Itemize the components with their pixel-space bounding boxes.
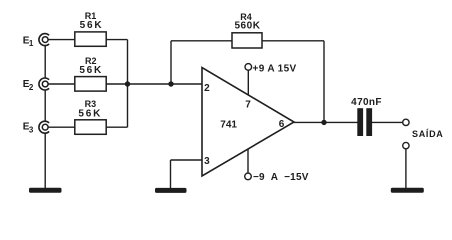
wire R3 to bus (106, 126, 127, 128)
wire output terminal to ground (405, 149, 407, 188)
terminal SAIDA signal (403, 119, 409, 125)
junction bus/main (125, 81, 130, 86)
ground (pin 3) (155, 188, 187, 193)
wire E3 to R3 (48, 126, 75, 128)
junction feedback/output (321, 120, 326, 125)
ground (output) (391, 188, 424, 193)
wire input chain vertical E2-E3 (44, 90, 46, 121)
wire E1 to R1 (48, 39, 75, 41)
wire R1 to bus (106, 39, 127, 41)
wire feedback left vertical (170, 41, 172, 84)
wire op-amp output (294, 121, 358, 123)
junction feedback/main (168, 81, 173, 86)
terminal E2 (39, 78, 49, 90)
svg-text:1: 1 (29, 39, 34, 48)
svg-text:56K: 56K (78, 108, 102, 119)
svg-text:−9 A −15V: −9 A −15V (253, 172, 309, 183)
terminal V- (245, 173, 252, 180)
svg-text:3: 3 (204, 156, 210, 167)
wire input chain vertical E1-E2 (44, 46, 46, 78)
wire feedback right vertical (323, 41, 325, 123)
terminal V+ (245, 64, 252, 71)
wire pin 3 down to ground (170, 160, 172, 188)
svg-text:3: 3 (29, 125, 34, 134)
svg-text:741: 741 (220, 119, 237, 130)
svg-text:2: 2 (204, 83, 210, 94)
wire pin 7 to V+ terminal (247, 70, 249, 95)
svg-text:+9 A 15V: +9 A 15V (253, 63, 297, 74)
svg-text:560K: 560K (234, 20, 260, 31)
op-amp U1 741 (202, 68, 294, 177)
resistor R2 (75, 77, 106, 92)
svg-text:7: 7 (245, 99, 251, 110)
wire bus vertical (127, 40, 129, 128)
wire feedback top right (262, 40, 324, 42)
wire E2 to R2 (48, 83, 75, 85)
svg-text:R3: R3 (85, 99, 97, 109)
wire E3 down to ground (44, 133, 46, 188)
wire op-amp pin 3 horizontal (171, 159, 203, 161)
terminal E3 (39, 121, 49, 133)
wire pin 4 to V- terminal (247, 149, 249, 173)
wire R2 to op-amp pin 2 (106, 83, 202, 85)
resistor R1 (75, 32, 106, 46)
svg-text:2: 2 (29, 83, 34, 92)
resistor R3 (75, 120, 106, 135)
ground (input) (29, 188, 62, 193)
terminal E1 (39, 34, 49, 46)
svg-text:470nF: 470nF (351, 97, 382, 108)
terminal SAIDA ground (403, 142, 409, 148)
svg-text:56K: 56K (79, 65, 103, 76)
svg-text:56K: 56K (80, 20, 104, 31)
wire feedback top left (171, 40, 232, 42)
wire capacitor to output terminal (372, 121, 403, 123)
resistor R4 (232, 33, 262, 48)
svg-text:6: 6 (279, 119, 285, 130)
capacitor C1 470nF (357, 108, 372, 136)
svg-text:SAÍDA: SAÍDA (412, 129, 444, 139)
